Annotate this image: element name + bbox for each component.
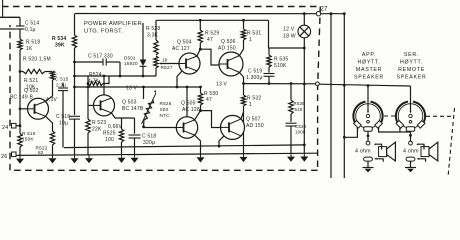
svg-text:REMOTE: REMOTE [398, 67, 425, 73]
svg-text:NTC: NTC [160, 113, 171, 118]
svg-text:HØYTT.: HØYTT. [357, 60, 380, 66]
svg-text:4 ohm: 4 ohm [355, 149, 371, 155]
svg-text:R 520 1,5M: R 520 1,5M [23, 57, 51, 63]
svg-text:22K: 22K [92, 127, 102, 133]
svg-text:R524: R524 [89, 72, 102, 78]
svg-text:R526: R526 [160, 101, 172, 106]
svg-text:Q 504: Q 504 [177, 40, 192, 46]
svg-text:C 515: C 515 [55, 77, 69, 82]
svg-text:320µ: 320µ [143, 140, 155, 146]
svg-text:Q 506: Q 506 [221, 39, 236, 45]
svg-text:R 518: R 518 [26, 40, 40, 46]
svg-text:100: 100 [105, 137, 114, 143]
svg-text:R 534: R 534 [52, 36, 66, 42]
svg-text:Q 502: Q 502 [24, 88, 39, 94]
svg-text:SPEAKER: SPEAKER [354, 74, 384, 80]
svg-text:39K: 39K [55, 43, 65, 49]
svg-text:1: 1 [249, 102, 252, 108]
svg-text:R527: R527 [161, 65, 173, 71]
svg-text:AC 128: AC 128 [182, 107, 200, 113]
svg-text:24: 24 [2, 125, 9, 131]
svg-text:R 528: R 528 [146, 26, 160, 32]
svg-text:R539: R539 [294, 101, 306, 106]
svg-text:15920: 15920 [124, 61, 138, 66]
svg-text:27: 27 [321, 7, 329, 13]
svg-text:POWER AMPLIFIER: POWER AMPLIFIER [84, 21, 142, 27]
svg-text:510K: 510K [274, 63, 287, 69]
svg-text:AC 127: AC 127 [172, 46, 190, 52]
svg-text:R 531: R 531 [247, 31, 261, 37]
svg-text:R 523: R 523 [92, 120, 106, 126]
svg-text:500: 500 [160, 107, 169, 112]
svg-text:HØYTT.: HØYTT. [400, 60, 423, 66]
svg-text:13 V: 13 V [216, 82, 228, 88]
svg-text:4,7K: 4,7K [88, 79, 100, 85]
svg-text:82: 82 [38, 150, 44, 155]
svg-text:26: 26 [1, 154, 8, 160]
svg-text:AD 150: AD 150 [246, 123, 264, 129]
svg-text:12 V: 12 V [283, 27, 295, 33]
svg-text:150K: 150K [22, 137, 34, 142]
svg-text:Q 505: Q 505 [181, 101, 196, 107]
svg-text:C 518: C 518 [142, 134, 156, 140]
svg-text:3,3K: 3,3K [147, 33, 159, 39]
svg-text:47: 47 [207, 37, 213, 43]
svg-text:R525: R525 [103, 131, 116, 137]
svg-text:2,2µ: 2,2µ [56, 82, 66, 87]
svg-text:C520: C520 [295, 124, 307, 129]
svg-text:UTG. FORST.: UTG. FORST. [84, 29, 123, 35]
svg-text:C 519: C 519 [248, 69, 262, 75]
svg-text:C 514: C 514 [25, 21, 39, 27]
svg-text:510: 510 [295, 107, 303, 112]
svg-text:C 516: C 516 [56, 114, 70, 120]
svg-text:R 535: R 535 [274, 57, 288, 63]
svg-text:1: 1 [249, 37, 252, 43]
svg-text:1.300µ: 1.300µ [246, 75, 263, 81]
svg-text:4,3V: 4,3V [46, 97, 58, 103]
svg-text:MASTER: MASTER [356, 67, 382, 73]
svg-text:SER.: SER. [404, 52, 419, 58]
svg-text:1000: 1000 [295, 130, 306, 135]
svg-text:10µ: 10µ [59, 121, 68, 127]
svg-text:Q 507: Q 507 [246, 117, 261, 123]
svg-text:APP.: APP. [362, 52, 376, 58]
svg-text:Q 503: Q 503 [122, 100, 137, 106]
svg-text:BC 149 B: BC 149 B [10, 94, 33, 100]
svg-text:1K: 1K [26, 46, 33, 52]
svg-text:BC 147B: BC 147B [122, 106, 144, 112]
svg-text:D501: D501 [124, 56, 136, 61]
svg-text:13 V: 13 V [126, 86, 138, 92]
svg-text:AD 150: AD 150 [218, 46, 236, 52]
svg-text:47: 47 [206, 97, 212, 103]
svg-text:R 521: R 521 [24, 78, 38, 84]
svg-text:R 519: R 519 [22, 131, 36, 136]
svg-text:18 W: 18 W [283, 34, 296, 40]
svg-text:1k: 1k [162, 58, 168, 64]
svg-text:R 529: R 529 [205, 31, 219, 37]
svg-text:SPEAKER: SPEAKER [397, 74, 427, 80]
svg-text:0,1µ: 0,1µ [25, 27, 36, 33]
svg-text:4 ohm: 4 ohm [403, 149, 419, 155]
svg-text:C 517 330: C 517 330 [88, 54, 113, 60]
svg-text:R 532: R 532 [247, 96, 261, 102]
svg-text:0,66V: 0,66V [108, 124, 123, 130]
